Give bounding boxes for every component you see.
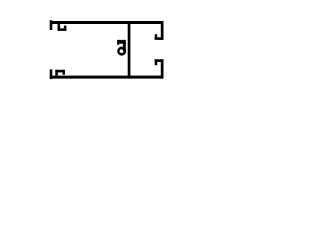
wire: bottom-right pin rise [161, 59, 164, 78]
pin 1 pad hook (top-left) [58, 24, 61, 31]
pin foot (bottom-right) [155, 59, 164, 62]
wire: bottom rail [50, 76, 164, 79]
wire: top rail [50, 21, 164, 24]
pin pad hook (bottom-left) [55, 70, 58, 76]
pin end bar (bottom-left) [50, 69, 53, 79]
pin number label 3 [117, 40, 126, 56]
pin foot tick (top-right) [155, 34, 158, 38]
wire: middle vertical connecting rails [128, 21, 131, 79]
pin foot tick (bottom-right) [155, 59, 158, 65]
pin 1 end bar (top-left) [50, 20, 53, 30]
wire: top-right pin drop [161, 21, 164, 40]
pin foot (top-right) [155, 37, 164, 40]
